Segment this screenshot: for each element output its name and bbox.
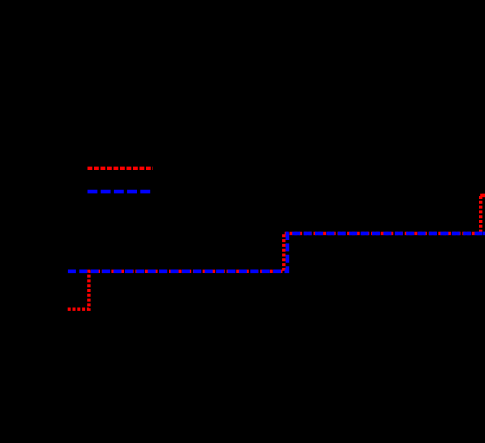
legend blue dashed sample line <box>88 190 154 194</box>
legend red dotted sample line <box>88 167 154 170</box>
blue dashed step curve <box>68 233 485 271</box>
red dotted step curve <box>68 195 485 309</box>
blue stub at bottom-right edge <box>483 232 485 236</box>
red stub at top-right edge <box>480 194 485 197</box>
